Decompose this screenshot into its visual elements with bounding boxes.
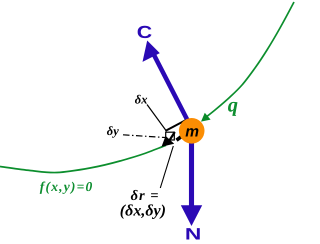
right-angle square of component construction — [166, 132, 175, 140]
svg-text:C: C — [137, 22, 153, 42]
arrowhead on curve pointing toward m — [201, 113, 211, 122]
tangent stub at circle lower-left — [177, 136, 183, 141]
constraint curve f(x,y)=0 — [0, 2, 294, 173]
leader line from delta-y label (dash-dot) — [123, 135, 165, 138]
svg-text:δy: δy — [107, 124, 119, 138]
svg-text:δx: δx — [135, 93, 148, 107]
leader line from delta-x label — [147, 105, 166, 131]
svg-text:q: q — [228, 95, 238, 117]
virtual displacement arrow delta-r (shaft and head) — [169, 132, 175, 141]
leader line from delta-r label — [160, 146, 173, 188]
construction line from m edge to right-angle corner — [165, 120, 186, 131]
constraint force arrow C — [154, 54, 193, 129]
svg-text:(δx,δy): (δx,δy) — [120, 202, 166, 219]
particle m — [179, 118, 205, 144]
svg-text:N: N — [185, 225, 201, 243]
arrowhead of N — [181, 205, 202, 226]
svg-text:f(x,y)=0: f(x,y)=0 — [40, 179, 94, 194]
applied force arrow N — [189, 138, 194, 206]
svg-text:m: m — [185, 123, 199, 140]
arrowhead of C — [143, 41, 160, 62]
